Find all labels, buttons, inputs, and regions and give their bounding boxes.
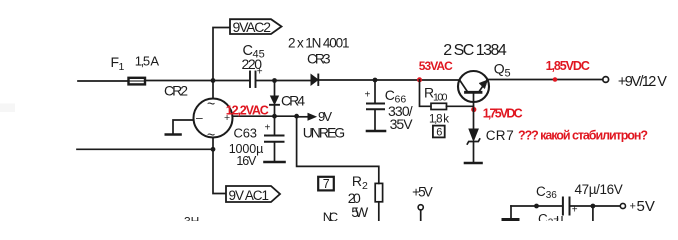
svg-text:36: 36 [546,190,558,201]
wire down to R100 [420,80,431,107]
svg-text:220: 220 [242,56,263,72]
wire down to 9VAC1 flag [213,149,226,193]
svg-text:6: 6 [436,127,442,139]
svg-text:9V: 9V [318,109,332,124]
svg-text:??? какой стабилитрон?: ??? какой стабилитрон? [518,129,648,143]
svg-text:C: C [538,211,548,221]
svg-text:5: 5 [505,67,511,79]
svg-text:5V: 5V [637,198,655,215]
node I junction (C37 tap) [534,204,539,209]
svg-text:35V: 35V [390,116,414,132]
net flag 9VAC2 [230,19,282,34]
net flag 9VAC1 [226,186,280,202]
svg-text:C: C [486,128,496,143]
node A junction [211,78,216,83]
svg-text:9V AC1: 9V AC1 [229,188,270,203]
node J junction [591,204,596,209]
wire 9V-unreg down to R2 [297,116,379,183]
svg-text:C: C [385,87,395,103]
node B junction [211,147,216,152]
svg-text:16V: 16V [236,154,257,168]
svg-text:3H: 3H [184,215,199,222]
wire bottom +5V rail [511,205,562,207]
svg-text:CR4: CR4 [281,92,305,108]
terminal +5V right [620,203,625,208]
node C junction (CR4 tap) [272,78,277,83]
svg-text:R: R [496,128,506,143]
bridge rectifier CR2 [194,99,233,138]
svg-text:1,85VDC: 1,85VDC [546,59,590,73]
ground (C63) [265,161,285,164]
resistor R2 [375,183,382,201]
ground (CR7) [465,162,482,165]
ground (bottom right) [510,206,512,218]
svg-text:µ: µ [556,211,564,221]
ground (C66) [367,130,385,133]
svg-text:CR3: CR3 [307,51,331,67]
wire stub to 9VAC2 flag [213,28,230,81]
svg-text:2 SC 1384: 2 SC 1384 [443,42,507,59]
svg-text:~: ~ [207,127,215,143]
wire bridge top lead [212,81,214,99]
svg-text:+9V/12 V: +9V/12 V [618,74,667,90]
svg-text:100: 100 [433,92,448,104]
node H red dot (1,85VDC) [553,77,558,82]
wire C45 to CR3 [256,80,311,82]
svg-text:7: 7 [323,177,330,191]
svg-text:1,8 k: 1,8 k [429,113,449,125]
zener diode CR7 [473,108,475,129]
wire Q5 emitter to output [488,79,603,81]
svg-text:+: + [365,90,371,101]
svg-text:~: ~ [207,96,215,112]
wire CR3 to Q5 collector side [318,79,459,81]
node F red junction (53VAC) [417,77,422,82]
svg-text:C63: C63 [234,125,258,140]
svg-text:2: 2 [362,180,368,192]
fuse F1 [129,78,146,85]
svg-text:+: + [265,123,271,134]
svg-text:C: C [536,184,546,199]
node E junction [294,114,299,119]
wire bridge left lead [173,120,194,134]
svg-text:47µ/16V: 47µ/16V [575,182,623,197]
transistor Q5 [458,71,489,102]
rail 9V unreg [233,115,297,117]
node D junction [272,114,277,119]
svg-text:1,75VDC: 1,75VDC [483,107,523,121]
svg-text:UNREG: UNREG [303,124,346,140]
svg-text:+5V: +5V [412,184,433,199]
wire lower AC rail [77,148,213,150]
diode CR3 [311,75,318,86]
svg-text:R: R [352,173,362,189]
connector pin 7 [318,177,334,191]
wire fuse to node A [146,80,250,82]
svg-text:12,2VAC: 12,2VAC [226,104,269,118]
svg-text:Q: Q [494,60,505,76]
wire bridge bottom lead [212,138,214,150]
faint scan mark left [0,104,15,113]
terminal +9V/12V [603,77,609,83]
node G red junction (base, 1,75VDC) [471,107,476,112]
svg-text:5W: 5W [351,204,369,220]
svg-text:1: 1 [119,61,125,73]
capacitor C36 [562,198,564,215]
arrow 9V UNREG [297,116,308,118]
resistor R100 [431,103,447,109]
wire main AC line left [78,80,128,82]
svg-text:CR2: CR2 [164,83,188,99]
connector pin 6 [433,126,445,138]
svg-text:9VAC2: 9VAC2 [233,19,272,35]
capacitor C66 [373,78,378,83]
svg-text:7: 7 [506,128,514,143]
capacitor C63 [274,116,276,134]
svg-text:NC: NC [323,209,339,221]
ground (bridge minus) [166,133,181,136]
svg-text:2 x 1N 4001: 2 x 1N 4001 [288,36,350,51]
svg-text:53VAC: 53VAC [419,59,453,73]
capacitor C45 [249,72,251,88]
diode CR4 [274,81,276,96]
wire C36 to terminal [571,205,621,207]
wire down from node J [592,206,594,221]
svg-text:–: – [196,111,203,125]
svg-text:1,5 A: 1,5 A [135,53,160,68]
svg-text:+: + [630,201,636,213]
